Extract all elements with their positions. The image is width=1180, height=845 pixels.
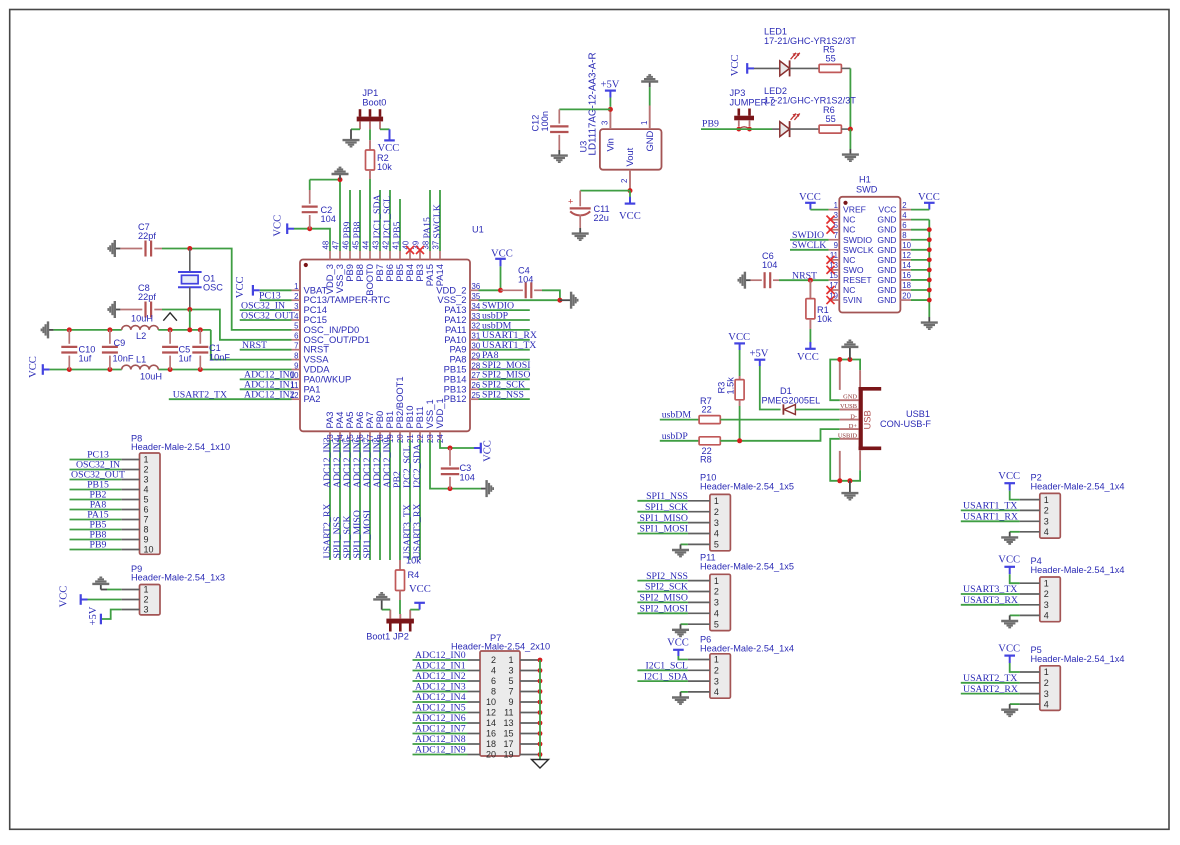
svg-text:3: 3 <box>144 605 149 615</box>
svg-text:100n: 100n <box>540 111 550 131</box>
net label ADC12_IN1 wire pin11 <box>240 388 292 390</box>
net label ADC12_IN6 wire P7 <box>413 722 468 724</box>
svg-text:VCC: VCC <box>619 211 641 222</box>
node P7 gnd bus junction <box>538 752 543 757</box>
LED1 cathode to R5 <box>790 67 820 69</box>
svg-text:VCC: VCC <box>998 643 1020 654</box>
svg-text:ADC12_IN9: ADC12_IN9 <box>415 745 466 756</box>
net label SWDIO wire <box>479 309 530 311</box>
svg-text:SWCLK: SWCLK <box>792 240 826 251</box>
svg-text:47: 47 <box>331 241 340 250</box>
node H1 GND bus junction <box>927 237 932 242</box>
svg-text:GND: GND <box>644 130 655 151</box>
net label ADC12_IN5 stub wire <box>349 440 351 560</box>
resistor R8 22 <box>699 437 720 445</box>
ground at H1 GND bus <box>921 317 938 329</box>
svg-text:USART2_RX: USART2_RX <box>963 684 1018 695</box>
wire to ground <box>849 129 851 149</box>
node P7 gnd bus junction <box>538 721 543 726</box>
net label ADC12_IN8 stub wire <box>379 440 381 560</box>
svg-text:20: 20 <box>902 291 911 300</box>
svg-text:10: 10 <box>902 241 911 250</box>
svg-text:GND: GND <box>843 394 857 401</box>
USB1 shield stub <box>839 360 841 390</box>
svg-text:22: 22 <box>702 404 712 414</box>
node C3 top <box>448 446 453 451</box>
power flag marker on GND rail <box>163 313 177 321</box>
svg-text:22u: 22u <box>594 213 609 223</box>
wire R3 to usbDP net <box>739 406 741 441</box>
net label I2C2_SDA / USART3_RX wire pin22 <box>419 440 421 560</box>
svg-text:14: 14 <box>486 718 496 728</box>
svg-text:1: 1 <box>714 576 719 586</box>
svg-text:3: 3 <box>601 121 610 125</box>
svg-text:ADC12_IN1: ADC12_IN1 <box>415 661 466 672</box>
svg-text:SPI1_SCK: SPI1_SCK <box>645 502 688 513</box>
net label SPI2_MOSI wire P11 pin4 <box>637 612 688 614</box>
node C2 bottom <box>307 226 312 231</box>
net label USART1_TX wire <box>479 349 530 351</box>
node shield top a <box>837 357 842 362</box>
svg-text:VCC: VCC <box>667 638 689 649</box>
svg-text:11: 11 <box>504 708 513 718</box>
svg-text:44: 44 <box>361 240 370 249</box>
svg-text:2: 2 <box>714 666 719 676</box>
wire C4 to VSS_2 <box>542 290 560 300</box>
svg-text:ADC12_IN2: ADC12_IN2 <box>415 671 466 682</box>
wire VSS_1 pin23 to ground <box>430 440 481 489</box>
svg-text:17-21/GHC-YR1S2/3T: 17-21/GHC-YR1S2/3T <box>764 96 856 106</box>
net label SPI2_NSS wire <box>479 398 530 400</box>
svg-text:1: 1 <box>294 282 298 291</box>
svg-text:VCC: VCC <box>409 584 431 595</box>
node JP3 pin2 <box>747 127 752 132</box>
wire Vin to C12 <box>559 108 610 110</box>
svg-text:Header-Male-2.54_1x10: Header-Male-2.54_1x10 <box>131 442 230 452</box>
power flag VCC at Vout (inverted) <box>629 191 631 204</box>
wire JP3 to LED2 <box>736 128 772 130</box>
svg-text:ADC12_IN2: ADC12_IN2 <box>244 390 295 401</box>
net label PB2 wire P8 pin5 <box>70 499 122 501</box>
svg-text:USB1: USB1 <box>906 409 930 419</box>
svg-text:2: 2 <box>620 179 629 183</box>
svg-text:7: 7 <box>294 342 298 351</box>
op-amp U1 STM32 MCU body <box>300 260 470 432</box>
net label I2C1_SCL stub wire pin42 <box>389 190 391 251</box>
svg-text:USART3_TX: USART3_TX <box>963 584 1017 595</box>
svg-text:7: 7 <box>508 687 513 697</box>
svg-text:2: 2 <box>714 507 719 517</box>
ground at P2 <box>1001 532 1018 544</box>
wire VCC to pin48 <box>294 229 330 251</box>
wire VDD_2 pin36 to C4 <box>479 289 501 291</box>
svg-text:OSC: OSC <box>203 283 223 293</box>
wire P10 pin5 to ground <box>681 543 688 545</box>
node C1 top <box>198 327 203 332</box>
svg-text:48: 48 <box>321 241 330 250</box>
net label USART3_RX wire P4 pin3 <box>961 604 1020 606</box>
net label PC13 wire pin2 <box>260 299 292 301</box>
svg-text:+5V: +5V <box>88 606 99 625</box>
svg-text:5VIN: 5VIN <box>843 295 862 305</box>
USB1 shield pin bottom <box>859 451 861 471</box>
node P7 gnd bus junction <box>538 742 543 747</box>
LED2 cathode to R6 <box>790 128 820 130</box>
svg-text:ADC12_IN4: ADC12_IN4 <box>415 692 466 703</box>
net label PB2 stub wire pin20 to R4 <box>399 440 401 560</box>
ground at C8 <box>108 301 120 318</box>
svg-text:104: 104 <box>518 275 533 285</box>
svg-text:8: 8 <box>902 231 906 240</box>
svg-text:VCC: VCC <box>797 352 819 363</box>
svg-text:2: 2 <box>714 587 719 597</box>
node JP3 pin1 <box>736 127 741 132</box>
net label SPI2_NSS wire P11 pin1 <box>637 580 688 582</box>
svg-text:C3: C3 <box>460 463 472 473</box>
svg-text:C12: C12 <box>531 115 541 132</box>
svg-text:16: 16 <box>486 729 496 739</box>
power flag VCC at JP1 (inverted) <box>389 129 391 140</box>
node C3 bottom <box>448 486 453 491</box>
wire P7 ground bus <box>539 660 541 761</box>
svg-text:PB8: PB8 <box>352 222 363 239</box>
svg-text:18: 18 <box>902 281 911 290</box>
net label SPI1_MOSI wire P10 pin4 <box>637 533 688 535</box>
capacitor C12 100n <box>558 109 560 123</box>
svg-text:NRST: NRST <box>792 270 817 281</box>
net label PB5 wire P8 pin8 <box>70 529 122 531</box>
node H1 GND bus junction <box>927 257 932 262</box>
svg-text:1uf: 1uf <box>79 354 92 364</box>
H1 no-connect X pin 19 <box>827 296 835 304</box>
svg-text:H1: H1 <box>859 175 871 185</box>
svg-text:Vin: Vin <box>605 138 616 151</box>
svg-text:22pf: 22pf <box>138 231 156 241</box>
svg-text:10: 10 <box>486 697 496 707</box>
svg-text:L1: L1 <box>136 354 146 364</box>
wire P11 pin5 to ground <box>681 623 688 625</box>
net label ADC12_IN0 wire P7 <box>413 659 468 661</box>
svg-text:2: 2 <box>1044 678 1049 688</box>
ground at P10 <box>672 544 689 556</box>
wire H1 GND bus <box>911 219 929 221</box>
svg-text:1: 1 <box>1044 578 1049 588</box>
svg-text:1: 1 <box>640 121 649 125</box>
svg-text:VCC: VCC <box>483 440 494 462</box>
wire R8 to USB D+ <box>720 429 839 441</box>
wire R7 to USB D- <box>720 419 839 421</box>
svg-text:GND: GND <box>877 225 896 235</box>
svg-text:43: 43 <box>371 241 380 250</box>
svg-text:U1: U1 <box>472 225 484 235</box>
net label SWCLK wire H1 pin9 <box>790 249 829 251</box>
wire JP2 right pin to VCC <box>410 609 419 611</box>
svg-text:LED1: LED1 <box>764 27 787 37</box>
svg-text:VCC: VCC <box>730 55 741 77</box>
node shield top b <box>847 357 852 362</box>
node Vout junction <box>628 188 633 193</box>
svg-text:3: 3 <box>714 518 719 528</box>
svg-text:JP1: JP1 <box>362 88 378 98</box>
USB1 pin D+ <box>840 428 859 430</box>
svg-text:VCC: VCC <box>918 192 940 203</box>
svg-text:I2C2_SDA: I2C2_SDA <box>412 444 423 488</box>
capacitor C7 22pf <box>120 248 142 250</box>
svg-text:3: 3 <box>714 676 719 686</box>
U1 bottom pins 13-24 <box>329 431 331 440</box>
power flag +5V at P9 pin3 <box>100 614 102 625</box>
svg-text:4: 4 <box>714 609 719 619</box>
node P7 gnd bus junction <box>538 731 543 736</box>
svg-text:Header-Male-2.54_1x4: Header-Male-2.54_1x4 <box>1031 565 1125 575</box>
node OSC_OUT junction <box>187 307 192 312</box>
svg-text:7: 7 <box>834 231 838 240</box>
svg-text:ADC12_IN5: ADC12_IN5 <box>415 703 466 714</box>
net label USART1_RX wire P2 pin3 <box>961 520 1020 522</box>
svg-text:GND: GND <box>877 285 896 295</box>
wire VDDA pin9 from VCC rail <box>158 369 291 371</box>
svg-text:55: 55 <box>826 54 836 64</box>
net label SPI2_MOSI wire <box>479 368 530 370</box>
wire P5 pin4 to ground <box>1010 703 1020 705</box>
ground at USB bottom <box>849 481 851 488</box>
resistor R5 55 <box>819 64 841 72</box>
node O1 gnd <box>187 327 192 332</box>
power flag VCC at VDD_1 <box>474 447 481 449</box>
svg-text:14: 14 <box>902 261 911 270</box>
net label PB8 stub wire pin45 <box>359 190 361 251</box>
USB1 pin GND <box>840 399 859 401</box>
earth ground at P7 <box>532 760 549 769</box>
svg-text:SPI2_NSS: SPI2_NSS <box>646 571 688 582</box>
node OSC_IN junction <box>187 246 192 251</box>
net label USART1_TX wire P2 pin2 <box>961 509 1020 511</box>
net label usbDM wire to R7 <box>660 419 699 421</box>
wire P9 pin1 to ground <box>107 589 121 591</box>
svg-text:SPI1_NSS: SPI1_NSS <box>646 491 688 502</box>
svg-text:45: 45 <box>351 240 360 249</box>
ground at P5 <box>1001 704 1018 716</box>
USB1 pin USBID <box>840 438 859 440</box>
svg-text:usbDP: usbDP <box>662 431 689 442</box>
svg-text:4: 4 <box>294 312 299 321</box>
svg-text:I2C1_SCL: I2C1_SCL <box>646 661 688 672</box>
svg-text:CON-USB-F: CON-USB-F <box>880 419 931 429</box>
net label ADC12_IN7 stub wire <box>369 440 371 560</box>
net label I2C1_SDA stub wire pin43 <box>379 190 381 251</box>
wire C6 to NRST / H1 RESET pin15 <box>779 279 829 281</box>
svg-text:SWDIO: SWDIO <box>843 235 872 245</box>
svg-text:2: 2 <box>902 201 906 210</box>
svg-text:USART2_TX: USART2_TX <box>173 390 227 401</box>
header H1 SWD body <box>839 197 900 313</box>
net label usbDP wire to R8 <box>660 440 699 442</box>
node C10 top <box>67 327 72 332</box>
svg-text:C9: C9 <box>114 338 126 348</box>
ground at P9 pin1 <box>101 589 107 591</box>
net label ADC12_IN2 / USART2_TX wire pin12 <box>169 398 292 400</box>
net label USART3_TX wire P4 pin2 <box>961 593 1020 595</box>
net label SPI1_SCK wire P10 pin2 <box>637 511 688 513</box>
svg-text:4: 4 <box>902 211 907 220</box>
net label SPI2_MISO wire <box>479 378 530 380</box>
net label PC13 wire P8 pin1 <box>70 459 122 461</box>
svg-text:4: 4 <box>144 485 149 495</box>
ground above C2 rail <box>332 168 349 180</box>
svg-text:3: 3 <box>508 666 513 676</box>
svg-text:SPI2_MISO: SPI2_MISO <box>640 593 688 604</box>
wire P9 pin2 to VCC <box>88 599 122 601</box>
svg-text:SPI1_MISO: SPI1_MISO <box>640 513 688 524</box>
svg-text:104: 104 <box>321 214 336 224</box>
regulator U3 LD1117AG-12-AA3-A-R body <box>600 129 662 170</box>
svg-text:LED2: LED2 <box>764 86 787 96</box>
svg-text:+5V: +5V <box>750 349 769 360</box>
net label SPI2_MISO wire P11 pin3 <box>637 601 688 603</box>
USB1 shield pin top <box>859 370 861 387</box>
wire Vout to C11 <box>580 190 630 192</box>
node C5 top <box>168 327 173 332</box>
net label I2C1_SDA wire P6 pin3 <box>637 680 688 682</box>
svg-text:NC: NC <box>843 225 855 235</box>
svg-text:ADC12_IN6: ADC12_IN6 <box>415 713 466 724</box>
node H1 GND bus junction <box>927 298 932 303</box>
net label USART1_RX wire <box>479 339 530 341</box>
svg-text:9: 9 <box>144 535 149 545</box>
svg-text:NC: NC <box>843 255 855 265</box>
capacitor C4 104 <box>501 289 523 291</box>
svg-text:GND: GND <box>877 295 896 305</box>
power flag VCC at U1 pin1 <box>253 289 260 291</box>
jumper JP2 Boot1 <box>386 619 414 624</box>
wire R2 to BOOT0 pin44 <box>369 179 371 251</box>
svg-text:10k: 10k <box>377 162 392 172</box>
svg-text:15: 15 <box>503 729 513 739</box>
svg-text:D-: D- <box>850 413 857 420</box>
wire GND rail left segment <box>54 329 122 331</box>
net label ADC12_IN6 stub wire <box>359 440 361 560</box>
USB1 top shield loop wire <box>830 360 860 401</box>
svg-text:VREF: VREF <box>843 205 866 215</box>
crystal O1 OSC <box>189 249 191 273</box>
svg-text:17: 17 <box>503 739 513 749</box>
svg-text:1: 1 <box>714 496 719 506</box>
net label ADC12_IN1 wire P7 <box>413 670 468 672</box>
svg-text:5: 5 <box>714 619 719 629</box>
net label ADC12_IN9 stub wire <box>389 440 391 560</box>
net label usbDM wire <box>479 329 530 331</box>
svg-text:USART3_RX: USART3_RX <box>963 595 1018 606</box>
net label ADC12_IN0 wire pin10 <box>240 378 292 380</box>
capacitor C10 1uf <box>68 330 70 344</box>
wire VCC rail left segment <box>50 369 122 371</box>
resistor R7 22 <box>699 416 720 424</box>
svg-text:9: 9 <box>508 697 513 707</box>
svg-text:SWD: SWD <box>856 185 878 195</box>
svg-text:Boot1: Boot1 <box>366 632 390 642</box>
svg-text:10uH: 10uH <box>140 372 162 382</box>
ground at P4 <box>1001 615 1018 627</box>
svg-text:NC: NC <box>843 215 855 225</box>
H1 no-connect X pin 3 <box>827 216 835 224</box>
inductor L2 10uH <box>122 326 159 330</box>
svg-text:6: 6 <box>144 505 149 515</box>
power flag VCC at JP2 <box>419 603 421 610</box>
svg-text:SWCLK: SWCLK <box>432 204 443 238</box>
svg-text:6: 6 <box>902 221 906 230</box>
svg-text:SWO: SWO <box>843 265 864 275</box>
svg-text:18: 18 <box>486 739 496 749</box>
net label ADC12_IN3 wire P7 <box>413 691 468 693</box>
ground at JP1 <box>350 129 352 134</box>
node VSS_2 <box>557 298 562 303</box>
svg-text:4: 4 <box>714 687 719 697</box>
svg-text:VUSB: VUSB <box>840 403 857 410</box>
svg-text:OSC32_OUT: OSC32_OUT <box>241 310 295 321</box>
svg-text:19: 19 <box>503 750 513 760</box>
svg-text:1: 1 <box>834 201 838 210</box>
node NRST junction <box>808 278 813 283</box>
svg-text:NRST: NRST <box>242 340 267 351</box>
svg-text:Header-Male-2.54_1x3: Header-Male-2.54_1x3 <box>131 573 225 583</box>
svg-text:USART2_TX: USART2_TX <box>963 673 1017 684</box>
ground at P11 <box>672 624 689 636</box>
wire D1 to VUSB pin <box>795 409 839 411</box>
H1 no-connect X pin 17 <box>827 286 835 294</box>
svg-text:VCC: VCC <box>998 555 1020 566</box>
svg-text:R4: R4 <box>408 570 420 580</box>
node VDD_2 <box>498 288 503 293</box>
net label SWCLK stub wire pin37 <box>439 190 441 251</box>
svg-text:55: 55 <box>826 114 836 124</box>
U1 no-connect X on pin 39 PB3 <box>416 246 424 254</box>
svg-text:1uf: 1uf <box>179 354 192 364</box>
net label PB15 wire P8 pin4 <box>70 489 122 491</box>
svg-text:PB12: PB12 <box>444 393 467 404</box>
U3 pin2 Vout lead <box>629 170 631 191</box>
svg-text:JP3: JP3 <box>730 88 746 98</box>
wire JP1 left pin to ground <box>351 128 360 130</box>
wire +5V to D1 <box>760 366 781 410</box>
svg-text:PB5: PB5 <box>392 222 403 239</box>
svg-text:SPI2_SCK: SPI2_SCK <box>645 582 688 593</box>
net label usbDP wire <box>479 319 530 321</box>
svg-text:12: 12 <box>486 708 496 718</box>
net label NRST wire pin7 <box>240 349 292 351</box>
svg-text:22pf: 22pf <box>138 292 156 302</box>
svg-text:RESET: RESET <box>843 275 872 285</box>
svg-text:2: 2 <box>491 655 496 665</box>
svg-text:17-21/GHC-YR1S2/3T: 17-21/GHC-YR1S2/3T <box>764 36 856 46</box>
svg-text:3: 3 <box>834 211 838 220</box>
net label OSC32_OUT wire pin4 <box>240 319 292 321</box>
net label PA8 wire <box>479 359 530 361</box>
node H1 GND bus junction <box>927 278 932 283</box>
svg-text:9: 9 <box>294 361 298 370</box>
svg-text:USART1_RX: USART1_RX <box>963 512 1018 523</box>
net label ADC12_IN8 wire P7 <box>413 743 468 745</box>
wire OSC_IN from C7/O1 to pin5 <box>190 249 292 330</box>
net label SPI2_SCK wire <box>479 388 530 390</box>
svg-text:GND: GND <box>877 255 896 265</box>
svg-text:SPI2_MOSI: SPI2_MOSI <box>640 604 688 615</box>
net label PB8 wire P8 pin9 <box>70 539 122 541</box>
capacitor C3 104 <box>449 448 451 466</box>
svg-text:1: 1 <box>508 655 513 665</box>
node P7 gnd bus junction <box>538 679 543 684</box>
wire VSS_2 pin35 <box>479 299 560 301</box>
svg-text:ADC12_IN0: ADC12_IN0 <box>415 650 466 661</box>
